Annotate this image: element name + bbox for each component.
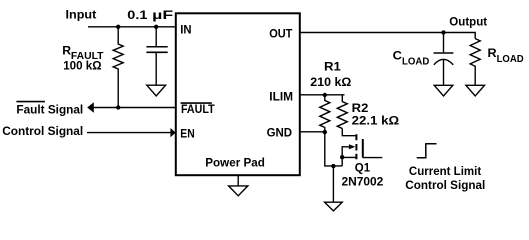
svg-text:Input: Input [66, 8, 97, 22]
wire GND pin to R1 bottom [300, 131, 325, 133]
svg-text:100 kΩ: 100 kΩ [63, 59, 102, 73]
capacitor CLOAD curved bottom plate [434, 59, 453, 65]
overline Fault Signal [16, 101, 45, 103]
svg-text:R: R [488, 46, 497, 60]
svg-text:OUT: OUT [269, 27, 293, 41]
svg-text:Output: Output [449, 15, 487, 29]
transistor Q1 drain lead from R2 [342, 129, 355, 136]
svg-text:GND: GND [267, 126, 293, 140]
ground under power pad [229, 186, 248, 196]
power pad ground stub [237, 175, 239, 186]
arrowhead Q1 body arrow [349, 144, 355, 149]
capacitor CLOAD leads [443, 33, 445, 86]
wire input to IN pin [88, 26, 176, 28]
junction dot GND/R1 [323, 130, 327, 134]
svg-text:22.1 kΩ: 22.1 kΩ [352, 114, 400, 128]
wire FAULT pin to Fault Signal arrow [93, 107, 176, 109]
resistor RLOAD [470, 39, 480, 86]
resistor R2 [337, 95, 347, 129]
overline FAULT pin [181, 102, 212, 104]
svg-text:2N7002: 2N7002 [342, 175, 384, 189]
wire Control Signal to EN pin [87, 132, 171, 134]
svg-text:EN: EN [180, 127, 194, 141]
wire OUT pin to output node and down to RLOAD [300, 33, 475, 39]
svg-text:Current Limit: Current Limit [409, 164, 481, 178]
svg-text:Control Signal: Control Signal [2, 124, 83, 138]
junction dot ILIM/R1 [323, 93, 327, 97]
junction dot Q1 source/body [340, 155, 344, 159]
svg-text:Fault Signal: Fault Signal [16, 102, 83, 116]
svg-text:Power Pad: Power Pad [205, 155, 264, 169]
svg-text:Control Signal: Control Signal [405, 178, 485, 192]
IC U1 body [176, 13, 300, 175]
wire ILIM pin to R1/R2 [300, 94, 345, 96]
junction dot input/C1 [154, 25, 158, 29]
wire Q1 source junction down to GND net [341, 157, 343, 166]
wire GND net down and across to Q1 source [325, 132, 342, 166]
capacitor C1 0.1uF leads [155, 27, 157, 86]
step waveform symbol [417, 144, 437, 158]
transistor Q1 source stub and body line [342, 147, 356, 158]
transistor Q1 gate bar [362, 139, 364, 158]
junction dot output node [441, 30, 445, 34]
arrowhead Fault Signal [87, 102, 94, 112]
svg-text:IN: IN [180, 22, 191, 36]
svg-text:LOAD: LOAD [497, 54, 524, 65]
svg-text:C: C [393, 48, 402, 62]
transistor Q1 gate lead [363, 157, 383, 159]
capacitor CLOAD top plate [434, 52, 454, 54]
svg-text:Q1: Q1 [355, 161, 371, 175]
svg-text:LOAD: LOAD [402, 56, 429, 67]
svg-text:R1: R1 [324, 59, 341, 73]
transistor Q1 channel bar [355, 134, 357, 159]
svg-text:ILIM: ILIM [269, 89, 293, 103]
svg-text:R: R [62, 43, 71, 57]
resistor RFAULT [113, 27, 123, 108]
capacitor C1 plates [146, 47, 167, 53]
ground under Q1 GND net [325, 202, 343, 211]
junction dot input/RFAULT [116, 25, 120, 29]
ground under CLOAD [434, 85, 453, 96]
junction dot FAULT/RFAULT [116, 105, 120, 109]
svg-text:FAULT: FAULT [181, 102, 215, 116]
resistor R1 [320, 95, 330, 132]
svg-text:210 kΩ: 210 kΩ [310, 75, 351, 89]
svg-text:R2: R2 [352, 101, 369, 115]
junction dot ground net [331, 164, 335, 168]
arrowhead EN [170, 128, 175, 137]
wire GND net stub down to ground [332, 166, 334, 202]
svg-text:0.1: 0.1 [127, 8, 147, 22]
svg-text:µF: µF [152, 8, 173, 22]
ground under RLOAD [466, 85, 485, 96]
ground under C1 [147, 85, 166, 96]
